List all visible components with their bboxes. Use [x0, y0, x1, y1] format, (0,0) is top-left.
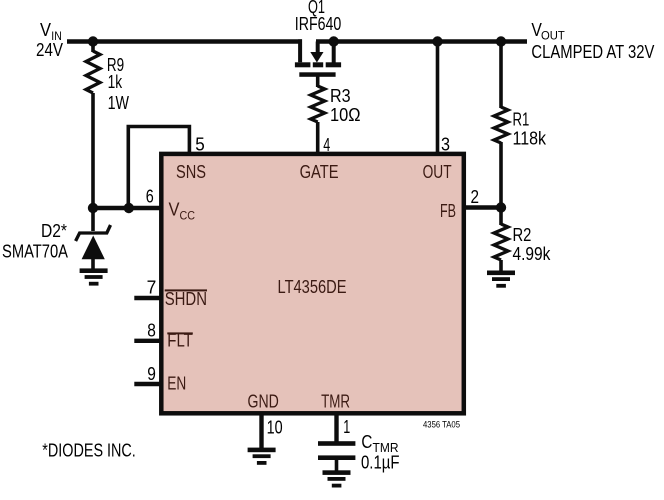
svg-text:SHDN: SHDN [165, 289, 207, 309]
pin 9 EN stub [134, 382, 161, 386]
ground CTMR [323, 470, 351, 487]
transistor Q1 IRF640 [295, 39, 341, 77]
svg-text:4.99k: 4.99k [513, 244, 552, 264]
note DIODES INC [42, 441, 136, 461]
note 4356 TA05 [423, 420, 460, 430]
svg-text:TMR: TMR [321, 392, 350, 412]
svg-text:4: 4 [323, 135, 330, 155]
svg-text:C: C [361, 432, 372, 452]
svg-text:9: 9 [147, 364, 156, 384]
wire SNS loop (pin 5 to VCC wire) [128, 127, 189, 209]
svg-text:D2*: D2* [41, 221, 67, 241]
svg-text:6: 6 [146, 187, 154, 207]
svg-text:CC: CC [180, 209, 196, 223]
wire R2 top lead [499, 208, 503, 226]
resistor R9 [86, 51, 100, 93]
resistor R2 [494, 224, 508, 260]
node FB junction [496, 202, 506, 212]
pin number 1 [343, 417, 350, 437]
svg-text:8: 8 [147, 321, 156, 341]
wire R1 bottom to FB node [499, 142, 503, 208]
ground D2 [80, 268, 108, 285]
wire R9 to VCC node and D2 [91, 93, 95, 231]
pin 7 SHDN stub [134, 296, 161, 300]
label R3 value [330, 86, 361, 125]
pin 8 FLT stub [134, 339, 161, 343]
wire OUT pin 3 [436, 42, 440, 155]
svg-text:5: 5 [195, 135, 205, 155]
svg-text:LT4356DE: LT4356DE [278, 277, 347, 297]
IC part number LT4356DE [278, 277, 347, 297]
IC U1 LT4356DE body [161, 154, 464, 413]
svg-text:10Ω: 10Ω [330, 105, 361, 125]
IC pin label EN [167, 374, 186, 394]
IC pin label TMR [321, 392, 350, 412]
label D2 [2, 221, 68, 262]
wire R3 to GATE pin 4 [316, 122, 320, 154]
svg-text:2: 2 [471, 187, 480, 207]
IC pin label GND [248, 392, 279, 412]
svg-text:24V: 24V [36, 40, 63, 60]
node VCC-R9 junction [88, 203, 98, 213]
svg-text:OUT: OUT [541, 29, 565, 43]
wire VIN rail left segment [67, 39, 302, 43]
svg-text:SMAT70A: SMAT70A [2, 242, 68, 262]
pin number 4 [323, 135, 330, 155]
IC pin label FLT (with overline) [167, 331, 193, 351]
node OUT pin-3 junction [432, 36, 442, 46]
svg-text:7: 7 [147, 278, 157, 298]
wire VCC (pin 6) [93, 206, 161, 210]
node R1 top junction [496, 36, 506, 46]
IC pin label VCC [169, 200, 196, 223]
label CTMR value [361, 432, 400, 473]
wire VIN junction to R9 [91, 42, 95, 53]
pin number 7 [147, 278, 157, 298]
label VOUT [531, 20, 654, 62]
wire R1 top lead [499, 42, 503, 109]
pin number 8 [147, 321, 156, 341]
svg-text:V: V [169, 200, 180, 220]
svg-text:R3: R3 [330, 86, 351, 106]
svg-text:GATE: GATE [300, 162, 339, 182]
pin number 2 [471, 187, 480, 207]
svg-text:R2: R2 [513, 225, 532, 245]
svg-text:EN: EN [167, 374, 186, 394]
IC pin label SHDN (with overline) [165, 289, 207, 309]
svg-text:3: 3 [441, 135, 450, 155]
IC pin label OUT [423, 162, 452, 182]
node VCC-SNS loop junction [124, 203, 134, 213]
svg-text:IRF640: IRF640 [295, 14, 342, 34]
pin number 5 [195, 135, 205, 155]
node Q1 source junction [329, 36, 339, 46]
label R2 value [513, 225, 552, 264]
node VIN junction (R9 tap) [88, 36, 98, 46]
pin number 10 [267, 418, 283, 438]
label R9 value [107, 55, 129, 113]
diode D2 zener SMAT70A [76, 225, 111, 269]
wire gate bar to R3 [316, 77, 320, 88]
svg-text:4356 TA05: 4356 TA05 [423, 420, 460, 430]
svg-text:FLT: FLT [167, 331, 193, 351]
wire R2 bottom lead [499, 260, 503, 271]
wire FB pin 2 stub [464, 205, 501, 209]
pin number 9 [147, 364, 156, 384]
ground pin 10 [248, 448, 276, 465]
svg-text:CLAMPED AT 32V: CLAMPED AT 32V [531, 42, 654, 62]
label Q1 [308, 0, 325, 17]
pin 10 GND stub [259, 414, 263, 448]
wire VIN rail right segment (to VOUT) [316, 39, 527, 43]
svg-text:0.1µF: 0.1µF [361, 453, 400, 473]
pin number 3 [441, 135, 450, 155]
label VIN [36, 20, 63, 60]
svg-text:R1: R1 [513, 110, 530, 130]
IC pin label FB [440, 201, 456, 221]
pin number 6 [146, 187, 154, 207]
resistor R1 [494, 107, 508, 143]
svg-text:OUT: OUT [423, 162, 452, 182]
svg-text:*DIODES INC.: *DIODES INC. [42, 441, 136, 461]
svg-text:GND: GND [248, 392, 279, 412]
svg-text:1W: 1W [108, 93, 129, 113]
label IRF640 [295, 14, 342, 34]
svg-text:1: 1 [343, 417, 350, 437]
svg-text:FB: FB [440, 201, 456, 221]
svg-text:118k: 118k [513, 129, 547, 149]
svg-text:1k: 1k [108, 72, 123, 92]
svg-text:SNS: SNS [176, 162, 206, 182]
ground R2 [487, 271, 515, 288]
pin 1 TMR stub [334, 414, 338, 442]
IC pin label GATE [300, 162, 339, 182]
resistor R3 [311, 86, 325, 122]
svg-text:V: V [40, 20, 51, 40]
capacitor CTMR [318, 441, 355, 471]
label R1 value [513, 110, 547, 149]
svg-text:10: 10 [267, 418, 283, 438]
IC pin label SNS [176, 162, 206, 182]
